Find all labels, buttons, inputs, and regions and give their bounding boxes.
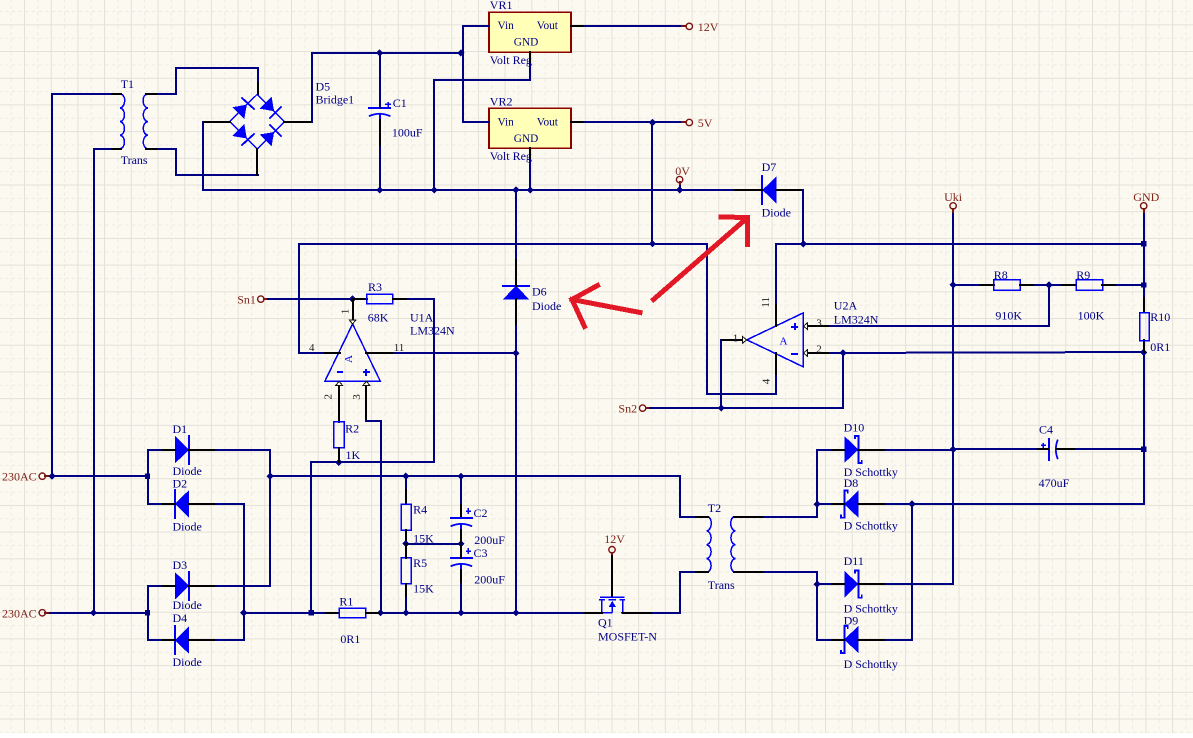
U2A pin 4 [775,353,777,376]
resistor R10 [1140,313,1150,341]
wire C2 top [460,476,462,505]
VR2 pin Vin [475,121,489,123]
junction Vin rail [457,49,464,56]
wire D10 row to C4 [953,448,1036,450]
svg-text:D Schottky: D Schottky [844,657,898,671]
T2 pin bottom-left [696,571,708,573]
VR2 pin GND [529,148,531,160]
C4 plus [1041,444,1046,446]
junction AC1 R4 [402,473,409,480]
bridge pin bottom [256,149,258,175]
D3 pin left [162,585,175,587]
junction C1 top [376,49,383,56]
junction D7 GND bus [800,240,807,247]
junction C3 AC2 row [457,609,464,616]
wire D1 D2 left riser [147,450,149,504]
C2 plus [466,510,471,512]
bridge rectifier D5 [230,94,285,149]
diode D9 [844,626,858,653]
D3 pin right [189,585,216,587]
wire D3 row left [148,585,162,587]
svg-text:3: 3 [816,318,822,330]
svg-text:910K: 910K [995,309,1022,323]
svg-text:GND: GND [514,37,538,49]
wire R3 feedback loop [311,299,434,613]
resistor R2 [334,422,344,448]
junction R8 R9 node [1045,281,1052,288]
wire T1 primary bottom down [94,149,110,613]
op-amp U1A [325,324,380,381]
resistor R9 [1076,280,1102,291]
voltage regulator VR1 [489,12,571,52]
wire U1A pin11 to D6 [394,352,516,354]
R5 pin top [405,544,407,558]
R5 pin bottom [405,584,407,598]
wire D9 to D8 node [886,639,912,641]
wire D10 riser [816,450,818,517]
svg-text:Vout: Vout [537,20,559,32]
svg-text:Vout: Vout [537,116,559,128]
C2 pin bottom [460,530,462,544]
diode D1 [175,436,189,463]
wire R4R5 to C2C3 node [406,543,461,545]
junction AC1 left riser [145,474,150,479]
svg-text:A: A [343,355,355,363]
port 12V gate [609,547,615,553]
D4 pin left [162,639,175,641]
svg-text:Volt Reg: Volt Reg [490,53,532,67]
VR1 pin Vout [571,25,585,27]
wire 230AC-1 [50,475,148,477]
svg-text:3: 3 [351,394,363,400]
junction VR2 GND rail [527,186,534,193]
diode D11 [844,571,858,598]
C2 pin top [460,505,462,518]
VR2 pin Vout [571,121,585,123]
R9 pin left [1062,284,1076,286]
svg-text:R4: R4 [413,503,427,517]
wire T2 secondary top to D10 riser [764,450,817,517]
C4 pin right [1057,448,1076,450]
U1A minus sign [337,371,343,373]
diode D4 [175,627,189,654]
port 5V [686,119,692,125]
junction GND R9 node [1141,282,1146,287]
wire GND bus right segment [776,243,1144,245]
svg-text:D2: D2 [173,476,188,490]
svg-text:D3: D3 [173,558,188,572]
T1 pin top-left [110,93,121,95]
wire D8 D9 tie [911,504,913,640]
svg-text:R1: R1 [339,594,353,608]
D7 pin right [776,189,803,191]
D6 pin top [515,258,517,286]
wire D8 to GND return [886,503,1076,505]
U1A pin 1 [352,299,354,320]
svg-text:D7: D7 [762,160,777,174]
diode D8 [844,491,858,518]
T2 pin top-right [734,516,764,518]
svg-text:1K: 1K [346,448,361,462]
bridge pin left [203,121,230,123]
svg-text:GND: GND [1133,190,1159,204]
D9 pin left [830,639,844,641]
port 230AC top [39,473,45,479]
T2 pin top-left [696,516,708,518]
svg-text:R2: R2 [345,421,359,435]
U2A minus sign [791,353,798,355]
svg-text:4: 4 [761,378,773,384]
svg-text:U1A: U1A [410,310,434,324]
wire D3 D4 left riser [147,586,149,640]
svg-text:4: 4 [309,342,315,354]
wire U1A pin4 riser [299,244,340,353]
svg-text:1: 1 [733,332,739,344]
wire 0V port stem [679,186,681,190]
svg-text:C3: C3 [474,546,488,560]
junction supply bus [649,240,656,247]
svg-text:Diode: Diode [532,299,561,313]
junction U1A output node [349,296,356,303]
D11 pin right [858,583,886,585]
wire T1 secondary top to bridge top [158,68,258,94]
junction 5V wire [649,119,656,126]
svg-text:VR1: VR1 [490,0,513,12]
svg-text:MOSFET-N: MOSFET-N [598,630,657,644]
svg-text:D4: D4 [173,611,188,625]
wire 12V to Q1 gate [611,553,613,568]
U1A pin 2 [338,385,340,422]
C1 plus [385,103,391,105]
T1 pin bottom-right [146,148,158,150]
wire 5V to opamp supply bus [651,122,653,244]
svg-text:R8: R8 [994,268,1008,282]
svg-text:Q1: Q1 [598,615,613,629]
wire Uki net vertical [886,214,953,584]
svg-text:2: 2 [323,394,335,400]
wire D10 row to Uki [886,449,953,451]
resistor R5 [401,558,411,584]
capacitor C4 [1048,439,1050,460]
C3 pin top [460,544,462,558]
junction Uki D10 row [950,446,957,453]
junction AC1 right riser [267,473,274,480]
wire VR2 GND down [529,160,531,190]
T1 pin bottom-left [110,148,121,150]
T1 pin top-right [146,93,158,95]
wire supply bus left segment [299,243,707,245]
wire T1 primary top to 230AC-1 rail [52,94,110,476]
diode D3 [175,572,189,599]
wire D10 row left [817,449,830,451]
junction feedback to AC2 row [309,610,314,615]
bridge diode bottom-right [260,132,274,146]
junction VR1 GND rail [431,186,438,193]
op-amp U2A [747,313,803,367]
D1 pin left [162,449,175,451]
port Sn1 [258,296,264,302]
capacitor C1 [369,107,390,109]
U2A pin 11 [775,303,777,326]
C3 pin bottom [460,570,462,584]
junction C2 C3 node [457,540,464,547]
svg-text:Uki: Uki [944,190,963,204]
svg-text:R9: R9 [1076,268,1090,282]
U1A pin3 wire jog [366,421,381,613]
red annotation arrow to D6 [572,286,640,327]
wire Sn2 to U2A minus input [650,353,843,408]
U2A pin 1 [721,339,743,341]
wire D1 row left [148,449,162,451]
wire VR1 Vout to 12V port [585,25,684,27]
D1 pin right [189,449,216,451]
transformer T2 [707,517,712,572]
R10 pin bottom [1143,340,1145,352]
port Sn2 [639,405,645,411]
resistor R8 [994,280,1020,291]
svg-text:D1: D1 [173,422,188,436]
wire T1 secondary bottom to bridge bottom [158,149,258,175]
svg-text:D8: D8 [844,476,859,490]
svg-text:15K: 15K [413,582,434,596]
wire bridge left to 0V rail [203,122,380,190]
svg-text:230AC: 230AC [2,470,37,484]
wire D4 up to AC2 [216,613,244,640]
R10 pin top [1143,298,1145,312]
C1 pin bottom [379,120,381,147]
D11 pin left [830,583,844,585]
junction D11 riser [814,581,821,588]
svg-text:R3: R3 [368,280,382,294]
wire AC1 continuing to T2 [270,476,696,517]
wire U2A pin3 wire [830,325,953,327]
bridge diode top-left [232,105,246,119]
junction AC1 C2 [457,473,464,480]
svg-text:Trans: Trans [121,153,148,167]
U1A pin 4 [325,352,340,354]
R8 pin left [980,284,994,286]
diode D6 [503,286,529,300]
svg-text:T1: T1 [121,77,134,91]
wire GND net vertical [1143,214,1145,312]
C3 plus [466,550,471,552]
wire R10 bottom to C4 row corner [1076,341,1144,504]
junction Sn2 feedback node [840,349,847,356]
bridge diode bottom-left [232,124,246,138]
D2 pin right [189,503,216,505]
resistor R1 [339,608,365,617]
wire U2A output down [720,340,722,408]
svg-text:200uF: 200uF [474,533,505,547]
svg-text:U2A: U2A [834,298,858,312]
resistor R4 [401,504,411,530]
Q1 pin source [623,612,653,614]
D7 pin left [735,189,762,191]
svg-text:R5: R5 [413,556,427,570]
capacitor C2 [451,517,472,519]
junction pin3 to AC2 row [377,609,384,616]
port 230AC bottom [39,610,45,616]
R2 pin bottom [338,448,340,462]
svg-text:0R1: 0R1 [1150,340,1170,354]
svg-text:12V: 12V [698,20,719,34]
wire D11 row left [817,583,830,585]
port Uki [950,203,956,209]
0V rail [380,189,735,191]
wire D9 row left [817,639,830,641]
bridge pin top [257,83,259,94]
wire D2 row left [148,503,162,505]
wire D6 to AC2 row [515,326,517,613]
svg-text:Trans: Trans [708,578,735,592]
svg-text:100uF: 100uF [392,126,423,140]
R3 pin left [352,298,367,300]
Q1 pin drain [585,612,602,614]
wire R1 to Q1 drain row [381,612,585,614]
svg-text:D11: D11 [844,554,864,568]
svg-text:100K: 100K [1078,309,1105,323]
port GND [1141,203,1147,209]
red annotation arrow to D7 [654,217,748,300]
svg-text:Vin: Vin [498,116,515,128]
svg-text:D Schottky: D Schottky [844,519,898,533]
wire D4 row left [148,639,162,641]
svg-text:Diode: Diode [173,598,202,612]
svg-text:2: 2 [816,344,822,356]
svg-text:Sn1: Sn1 [237,293,256,307]
wire C1 to 0V rail [379,147,381,190]
svg-text:230AC: 230AC [2,606,37,620]
wire Vin riser [463,26,489,122]
U1A pin 11 [366,352,394,354]
D4 pin right [189,639,216,641]
junction AC2 D2-D4 node [240,609,247,616]
diode D2 [175,490,189,517]
junction GND C4 row [1141,447,1146,452]
svg-text:Sn2: Sn2 [618,402,637,416]
wire AC2 to R1 [244,612,339,614]
wire D11 row to Uki riser [886,583,953,585]
wire D2 to AC2 node [216,504,244,613]
R3 pin right [393,298,408,300]
U1A plus sign [363,371,370,373]
svg-text:1: 1 [340,309,352,315]
port 12V [686,23,692,29]
wire U2A pin2 to R10 node [830,352,1144,353]
junction C1 bottom [376,186,383,193]
wire Uki stem [952,209,954,214]
VR1 pin Vin [475,25,489,27]
D9 pin right [858,639,886,641]
junction output Sn2 wire [718,405,725,412]
R8 pin right [1020,284,1035,286]
svg-text:5V: 5V [698,116,713,130]
R1 pin right [366,612,381,614]
junction GND bus at GND net [1141,241,1146,246]
svg-text:11: 11 [760,297,772,308]
bridge pin right [284,121,312,123]
D2 pin left [162,503,175,505]
bridge diode top-right [260,97,274,111]
junction 0V rail [676,186,683,193]
junction R4 R5 node [402,540,409,547]
wire 0V rail to D6 [515,190,517,258]
wire R4 top [405,476,407,504]
transformer T1 [120,94,125,148]
svg-text:C4: C4 [1039,423,1053,437]
R1 pin left [326,612,339,614]
wire R9 to GND net [1117,284,1144,286]
wire 230AC-2 [50,612,148,614]
R9 pin right [1102,284,1117,286]
U2A pin 3 [808,325,830,327]
svg-text:LM324N: LM324N [410,323,455,337]
svg-text:Vin: Vin [498,20,515,32]
D6 pin bottom [515,299,517,326]
wire T2 secondary bottom to D11 riser [764,572,817,640]
svg-text:T2: T2 [708,501,721,515]
wire pin3 to R8-R9 node [953,285,1049,326]
svg-text:GND: GND [514,133,538,145]
wire Sn1 to R3 [268,298,367,300]
svg-text:R10: R10 [1150,310,1170,324]
svg-text:LM324N: LM324N [834,312,879,326]
junction R5 AC2 row [402,609,409,616]
wire Q1 source to T2 [653,572,696,613]
svg-text:Diode: Diode [762,205,791,219]
T2 pin bottom-right [734,571,764,573]
wire D3 to right riser [216,504,270,586]
svg-text:Diode: Diode [173,655,202,669]
voltage regulator VR2 [489,108,571,148]
wire VR1 GND loop [434,64,530,190]
svg-text:D6: D6 [532,285,547,299]
U2A pin 2 [808,352,830,354]
junction AC2 transformer [90,609,97,616]
R4 pin bottom [405,530,407,544]
svg-text:0R1: 0R1 [340,632,360,646]
junction AC1 transformer [49,473,56,480]
D10 pin left [830,449,844,451]
junction R2 bottom [335,459,342,466]
wire R8 to R9 [1035,284,1076,286]
wire D8 row left [817,503,830,505]
D8 pin right [858,503,886,505]
svg-text:D10: D10 [844,420,865,434]
svg-text:Diode: Diode [173,519,202,533]
transistor Q1 MOSFET-N [599,597,625,612]
diode D7 [762,176,776,203]
svg-text:470uF: 470uF [1039,476,1070,490]
svg-text:D9: D9 [844,613,859,627]
wire R5 to AC2 row [405,598,407,613]
junction R10 bottom node [1140,349,1147,356]
wire GND stem [1143,209,1145,214]
wire D1 to right riser [216,450,270,504]
wire R8 input [953,284,994,286]
D10 pin right [858,449,886,451]
capacitor C3 [451,557,472,559]
svg-text:Volt Reg: Volt Reg [490,149,532,163]
junction pin11 D6 node [512,350,519,357]
junction D8 riser [814,501,821,508]
svg-text:68K: 68K [368,310,389,324]
U1A pin 3 [365,385,367,421]
junction D6 top on rail [512,186,519,193]
svg-text:0V: 0V [675,164,690,178]
diode D10 [844,436,858,463]
wire U2A pin4 to supply bus [707,244,776,394]
